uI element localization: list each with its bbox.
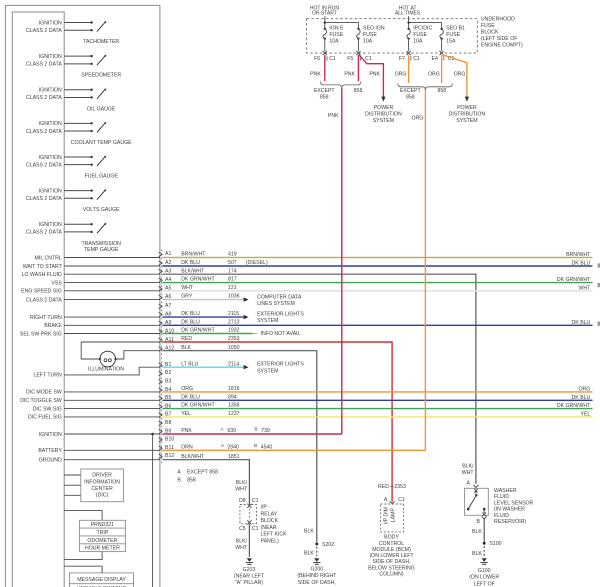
svg-text:BRAKE: BRAKE [44, 323, 62, 329]
svg-text:ODOMETER: ODOMETER [87, 538, 117, 544]
svg-text:DIC MODE SW: DIC MODE SW [26, 390, 62, 396]
svg-text:1932: 1932 [228, 328, 240, 334]
svg-text:G200: G200 [310, 566, 323, 572]
svg-text:RESERVOIR): RESERVOIR) [494, 519, 526, 525]
cluster signal LO WASH FLUID wire [22, 272, 160, 278]
svg-text:BLK: BLK [181, 345, 191, 351]
svg-text:BLK: BLK [304, 528, 314, 534]
connector pin A4 [159, 277, 172, 283]
gauge TACHOMETER [26, 20, 119, 45]
svg-text:YEL: YEL [181, 411, 191, 417]
connector pin A3 [159, 268, 172, 274]
svg-text:MIL CNTRL: MIL CNTRL [35, 255, 62, 261]
label POWER DISTRIBUTION SYSTEM (left) [365, 105, 402, 124]
svg-text:858: 858 [354, 88, 363, 94]
PRND321 box feed wire [64, 511, 102, 521]
label EXCEPT 858 (pink left) [314, 88, 336, 100]
svg-text:LINES SYSTEM: LINES SYSTEM [257, 301, 295, 307]
connector terminal F7/C1 [399, 51, 420, 62]
svg-text:COLUMN): COLUMN) [379, 572, 403, 578]
svg-text:LAMP: LAMP [390, 508, 396, 523]
svg-text:BLK/: BLK/ [236, 539, 248, 545]
svg-text:S100: S100 [489, 541, 501, 547]
svg-text:ENG SPEED SIG: ENG SPEED SIG [21, 289, 62, 295]
connector pin A12 [159, 346, 175, 352]
driver information center box [81, 469, 124, 502]
label UNDERHOOD FUSE BLOCK [481, 17, 523, 49]
svg-text:10A: 10A [363, 39, 373, 45]
I/P relay block dashed box [240, 505, 257, 524]
gauge OIL GAUGE [26, 88, 116, 113]
svg-text:VOLTS GAUGE: VOLTS GAUGE [83, 207, 120, 213]
svg-text:EXTERIOR LIGHTS: EXTERIOR LIGHTS [257, 362, 304, 368]
cluster signal DIC SW SIG wire [33, 406, 160, 412]
fuse output lead F6 [324, 39, 326, 52]
svg-text:858: 858 [406, 94, 415, 100]
svg-text:CLASS 2 DATA: CLASS 2 DATA [26, 95, 62, 101]
fuse IGN E 10A [323, 26, 344, 45]
svg-text:ORG: ORG [428, 71, 440, 77]
svg-text:1050: 1050 [228, 345, 240, 351]
svg-text:EXCEPT: EXCEPT [400, 88, 422, 94]
connector pin A7 [159, 303, 172, 309]
svg-text:B: B [477, 519, 481, 525]
ground G100 [481, 558, 488, 564]
svg-text:ENGINE COMPT): ENGINE COMPT) [481, 43, 523, 49]
svg-text:B: B [254, 443, 257, 448]
svg-text:IGNITION: IGNITION [39, 20, 62, 26]
svg-text:BLK/: BLK/ [462, 464, 474, 470]
svg-text:DK GRN/WHT: DK GRN/WHT [181, 328, 215, 334]
labels PRND321 TRIP ODOMETER HOUR METER [85, 522, 120, 552]
svg-text:TRANSMISSION: TRANSMISSION [81, 241, 121, 247]
svg-text:4540: 4540 [261, 444, 273, 450]
wire A9 DK BLU 2713 [162, 319, 592, 325]
svg-text:2114: 2114 [228, 361, 239, 367]
svg-text:IGNITION: IGNITION [39, 155, 62, 161]
svg-text:G100: G100 [478, 568, 491, 574]
right edge label DK BLU [572, 320, 591, 326]
message display box [69, 573, 133, 587]
svg-text:MESSAGE DISPLAY: MESSAGE DISPLAY [77, 577, 126, 583]
svg-text:FLUID: FLUID [494, 494, 509, 500]
connector pin A1 [159, 251, 172, 257]
fuse IPC/DIC 10A [407, 26, 433, 45]
svg-text:B2: B2 [165, 370, 171, 376]
cluster signal DIC FUEL SIG wire [28, 415, 160, 421]
svg-text:I/P DIM: I/P DIM [383, 507, 389, 524]
feed wire HOT IN RUN [324, 16, 359, 29]
splice S202 [304, 528, 334, 556]
wire B1 LT BLU 2114 [162, 361, 243, 367]
svg-text:(ON LOWER: (ON LOWER [469, 575, 499, 581]
gauge SPEEDOMETER [26, 54, 121, 79]
connector pin B12 [159, 453, 175, 459]
connector pin B7 [159, 412, 172, 418]
wire A3 BLK/WHT 174 [162, 268, 476, 484]
svg-text:RIGHT TURN: RIGHT TURN [30, 315, 62, 321]
cluster signal SEL SW PRK SIG wire [20, 331, 160, 337]
label HOT AT ALL TIMES [395, 5, 421, 16]
svg-text:ALL TIMES: ALL TIMES [395, 11, 421, 17]
washer fluid level sensor switch [467, 489, 486, 516]
arrow to EXTERIOR LIGHTS SYSTEM (B1) [244, 362, 305, 375]
connector pin B8 [159, 420, 172, 426]
fuse SEO IGN 10A [357, 26, 385, 45]
svg-text:RED: RED [378, 484, 389, 490]
label G100 [469, 568, 499, 587]
fuse output lead F5 [357, 39, 359, 52]
washer fluid level sensor box [465, 488, 489, 515]
wire PNK merged vertical to B9 [328, 88, 342, 434]
wire A8 DK BLU 2115 [162, 311, 243, 317]
svg-text:SIDE OF DASH,: SIDE OF DASH, [298, 580, 336, 586]
cluster connector C1 dashed line [161, 250, 163, 464]
connector terminal F6/C1 [314, 51, 336, 62]
svg-text:POWER: POWER [374, 105, 394, 111]
svg-text:BLK: BLK [472, 551, 482, 557]
svg-text:WAIT TO START: WAIT TO START [23, 264, 63, 270]
svg-text:LEFT KICK: LEFT KICK [261, 532, 288, 538]
wire A12 BLK 1050 [162, 345, 316, 542]
svg-text:GRY: GRY [181, 294, 193, 300]
label BLK/WHT (above relay block) [235, 480, 248, 493]
connector pin B5 [159, 395, 172, 401]
cluster signal CLASS 2 DATA wire [26, 297, 160, 303]
svg-text:BLK: BLK [472, 529, 482, 535]
label HOT IN RUN OR START [310, 5, 339, 16]
svg-text:ORG: ORG [181, 386, 193, 392]
svg-text:SYSTEM: SYSTEM [257, 368, 278, 374]
svg-text:I/P: I/P [261, 505, 268, 511]
wire B4 ORG 1816 [162, 386, 592, 392]
svg-text:G203: G203 [243, 567, 256, 573]
wire ORG from F7 [395, 55, 409, 83]
svg-text:507: 507 [228, 260, 237, 266]
ground G203 [246, 558, 253, 564]
cluster signal LEFT TURN wire [33, 367, 159, 379]
cluster inner label box [12, 12, 64, 587]
svg-text:F5: F5 [347, 56, 353, 62]
svg-text:639: 639 [227, 428, 236, 434]
svg-text:A1: A1 [165, 251, 171, 257]
svg-text:FUSE: FUSE [481, 23, 495, 29]
svg-text:FUSE: FUSE [446, 32, 460, 38]
connector pin A6 [159, 294, 172, 300]
svg-text:EXCEPT 858: EXCEPT 858 [187, 469, 218, 475]
svg-text:ORN: ORN [181, 444, 193, 450]
svg-text:GROUND: GROUND [39, 458, 62, 464]
wire RED label [378, 484, 406, 490]
connector pin B9 [159, 428, 172, 434]
svg-text:C1: C1 [329, 56, 336, 62]
svg-text:CLASS 2 DATA: CLASS 2 DATA [26, 297, 62, 303]
svg-text:WHT: WHT [578, 285, 591, 291]
svg-text:419: 419 [228, 252, 237, 258]
svg-text:174: 174 [228, 268, 237, 274]
connector pin A9 [159, 320, 172, 326]
wire A10 DK GRN/WHT 1932 [162, 328, 252, 334]
svg-text:DISTRIBUTION: DISTRIBUTION [449, 111, 486, 117]
wire A6 GRY 1036 [162, 294, 243, 300]
svg-text:MODULE (BCM): MODULE (BCM) [372, 547, 411, 553]
page-edge fragment marks [598, 263, 600, 325]
svg-text:(NEAR LEFT: (NEAR LEFT [234, 574, 265, 580]
cluster signal IGNITION wire [39, 432, 160, 438]
connector pin A11 [159, 337, 174, 343]
svg-text:ORG: ORG [411, 115, 423, 121]
connector pin B2 [159, 370, 172, 376]
svg-text:(NEAR: (NEAR [261, 525, 277, 531]
svg-text:S202: S202 [322, 542, 334, 548]
svg-text:SEO B1: SEO B1 [446, 26, 465, 32]
svg-text:DK BLU: DK BLU [572, 261, 591, 267]
svg-text:PNK: PNK [310, 71, 321, 77]
note INFO NOT AVAIL [253, 331, 301, 337]
svg-text:IGNITION: IGNITION [39, 54, 62, 60]
svg-text:F7: F7 [399, 56, 405, 62]
svg-text:BLK/WHT: BLK/WHT [181, 268, 205, 274]
cluster signal BRAKE wire [44, 323, 160, 329]
cluster signal ENG SPEED SIG wire [21, 289, 160, 295]
right edge label DK GRN/WHT [557, 403, 591, 409]
label BLK/WHT (above washer sensor) [462, 464, 475, 477]
svg-text:IGN E: IGN E [329, 26, 344, 32]
fuse output lead F7 [408, 39, 410, 52]
svg-text:1358: 1358 [228, 403, 240, 409]
gauge VOLTS GAUGE [26, 188, 120, 213]
svg-text:DK GRN/WHT: DK GRN/WHT [181, 403, 215, 409]
connector pin B10 [159, 437, 175, 443]
label WASHER FLUID LEVEL SENSOR [494, 488, 534, 525]
cluster signal VSS wire [51, 280, 159, 286]
svg-text:817: 817 [228, 277, 237, 283]
svg-text:C1: C1 [365, 56, 372, 62]
svg-text:CLASS 2 DATA: CLASS 2 DATA [26, 62, 62, 68]
svg-text:FUSE: FUSE [363, 32, 377, 38]
wire A1 BRN/WHT 419 [162, 252, 592, 258]
svg-text:B12: B12 [165, 453, 174, 459]
svg-text:ILLUMINATION: ILLUMINATION [88, 367, 124, 373]
label 858 (orange right) [437, 88, 446, 94]
wire BLK/WHT to G203 [235, 524, 249, 557]
svg-text:VSS: VSS [51, 280, 62, 286]
wire B11 ORN 2840/4540 [162, 443, 425, 451]
svg-text:IPC/DIC: IPC/DIC [413, 26, 432, 32]
svg-text:SPEEDOMETER: SPEEDOMETER [81, 73, 121, 79]
svg-text:BLK/WHT: BLK/WHT [181, 454, 205, 460]
svg-text:LT BLU: LT BLU [181, 361, 198, 367]
brace EXCEPT 858 / 858 (orange) [398, 84, 453, 91]
svg-text:894: 894 [228, 394, 237, 400]
svg-text:A2: A2 [165, 260, 171, 266]
wire B5 DK BLU 894 [162, 394, 592, 400]
fuse output lead E4 [441, 39, 443, 52]
svg-text:ORG: ORG [578, 386, 590, 392]
terminal B at washer sensor [477, 517, 487, 526]
svg-text:CLASS 2 DATA: CLASS 2 DATA [26, 196, 62, 202]
connector pin B11 [159, 445, 174, 451]
labels MESSAGE DISPLAY / VARIABLE DIMMING [77, 577, 127, 587]
svg-text:BLOCK: BLOCK [481, 30, 499, 36]
instrument cluster outer box [5, 5, 160, 587]
connector pin A8 [159, 311, 172, 317]
svg-text:CLASS 2 DATA: CLASS 2 DATA [26, 162, 62, 168]
svg-text:1036: 1036 [228, 294, 240, 300]
svg-text:IGNITION: IGNITION [39, 121, 62, 127]
svg-text:LEVEL SENSOR: LEVEL SENSOR [494, 500, 534, 506]
wire PNK from F5 [344, 55, 358, 81]
svg-text:DK GRN/WHT: DK GRN/WHT [557, 277, 591, 283]
right edge label YEL [580, 411, 590, 417]
wire A11 RED 2353 [162, 336, 392, 501]
svg-text:CLASS 2 DATA: CLASS 2 DATA [26, 230, 62, 236]
connector pin A2 [159, 260, 172, 266]
arrow to EXTERIOR LIGHTS SYSTEM (A8) [244, 311, 305, 324]
svg-text:BRN/WHT: BRN/WHT [566, 252, 591, 258]
cluster signal RIGHT TURN wire [30, 315, 160, 321]
cluster signal BATTERY wire [38, 448, 160, 454]
svg-text:PANEL): PANEL) [261, 539, 280, 545]
svg-text:B3: B3 [165, 379, 171, 385]
svg-text:CLASS 2 DATA: CLASS 2 DATA [26, 129, 62, 135]
gauge FUEL GAUGE [26, 155, 118, 180]
odometer box bottom wire [64, 552, 102, 560]
svg-text:739: 739 [261, 428, 270, 434]
right edge label WHT [578, 285, 591, 291]
wire ORG branch to power distribution [442, 55, 469, 102]
svg-text:DIC TOGGLE SW: DIC TOGGLE SW [20, 398, 62, 404]
svg-text:RED: RED [181, 336, 192, 342]
svg-text:IGNITION: IGNITION [39, 88, 62, 94]
svg-text:B8: B8 [165, 420, 171, 426]
cluster illumination wire to pin A11 [81, 342, 160, 359]
svg-text:SEL SW PRK SIG: SEL SW PRK SIG [20, 331, 62, 337]
svg-text:"A" PILLAR): "A" PILLAR) [235, 580, 263, 586]
cluster signal DIC MODE SW wire [26, 390, 160, 396]
svg-text:BLK/: BLK/ [236, 480, 248, 486]
svg-text:(ON LOWER LEFT: (ON LOWER LEFT [369, 553, 414, 559]
cluster signal WAIT TO START wire [23, 264, 160, 270]
svg-text:SIDE OF DASH,: SIDE OF DASH, [372, 559, 410, 565]
svg-text:BODY: BODY [384, 535, 399, 541]
arrow to COMPUTER DATA LINES SYSTEM [244, 294, 302, 307]
connector terminal F5/C1 [347, 51, 372, 62]
svg-text:10A: 10A [329, 39, 339, 45]
svg-text:WHT: WHT [462, 470, 475, 476]
svg-text:DK BLU: DK BLU [572, 395, 591, 401]
svg-text:DISTRIBUTION: DISTRIBUTION [365, 111, 402, 117]
label DRIVER INFORMATION CENTER (DIC) [84, 473, 120, 499]
connector terminal A/C1 at BCM [384, 497, 405, 504]
svg-text:BLOCK: BLOCK [261, 518, 279, 524]
connector terminal D8/C1 at relay block [239, 498, 259, 508]
svg-text:PNK: PNK [181, 428, 192, 434]
cluster signal MIL CNTRL wire [35, 255, 160, 261]
svg-text:DRIVER: DRIVER [92, 473, 112, 479]
svg-text:COMPUTER DATA: COMPUTER DATA [257, 294, 302, 300]
wire A4 DK GRN/WHT 817 [162, 277, 592, 283]
wire B12 BLK/WHT 1851 [162, 454, 249, 505]
svg-text:E4: E4 [432, 56, 438, 62]
svg-text:(BEHIND RIGHT: (BEHIND RIGHT [297, 573, 337, 579]
svg-text:LO WASH FLUID: LO WASH FLUID [22, 272, 62, 278]
right edge label DK BLU [572, 395, 591, 401]
svg-text:BRN/WHT: BRN/WHT [181, 252, 206, 258]
svg-text:CENTER: CENTER [91, 486, 113, 492]
svg-text:DK GRN/WHT: DK GRN/WHT [181, 277, 215, 283]
wire ORG merged vertical to B11 [411, 90, 425, 450]
svg-text:2353: 2353 [394, 484, 406, 490]
wire A2 DK BLU 507 [162, 260, 592, 266]
BCM dashed box [381, 504, 404, 532]
svg-text:A: A [467, 480, 471, 486]
svg-text:C1: C1 [398, 497, 405, 503]
svg-text:POWER: POWER [457, 105, 477, 111]
svg-text:DK GRN/WHT: DK GRN/WHT [557, 403, 591, 409]
label POWER DISTRIBUTION SYSTEM (right) [449, 105, 486, 124]
connector pin B6 [159, 403, 172, 409]
label BODY CONTROL MODULE [368, 535, 415, 578]
cluster signal DIC TOGGLE SW wire [20, 398, 160, 404]
svg-text:C5: C5 [239, 526, 246, 532]
cluster internal ignition feed vertical wire [152, 434, 154, 587]
svg-text:SYSTEM: SYSTEM [373, 118, 394, 124]
label G200 [297, 566, 337, 585]
svg-text:858: 858 [437, 88, 446, 94]
svg-text:B: B [255, 427, 258, 432]
wire A5 WHT 121 [162, 285, 592, 291]
svg-text:B: B [177, 478, 181, 484]
legend A EXCEPT 858 / B 858 (cluster) [177, 469, 218, 483]
svg-text:121: 121 [228, 285, 237, 291]
svg-text:1816: 1816 [228, 386, 240, 392]
label EXCEPT 858 (orange left) [400, 88, 422, 100]
svg-text:CONTROL: CONTROL [379, 541, 404, 547]
connector pin A5 [159, 286, 172, 292]
svg-text:BATTERY: BATTERY [38, 448, 62, 454]
svg-text:F6: F6 [314, 56, 320, 62]
connector pin B3 [159, 379, 172, 385]
svg-text:HOUR METER: HOUR METER [85, 546, 120, 552]
svg-text:OR START: OR START [312, 11, 337, 17]
fuse SEO B1 15A [440, 26, 465, 45]
svg-text:IGNITION: IGNITION [39, 188, 62, 194]
svg-text:LEFT TURN: LEFT TURN [33, 373, 62, 379]
ground G200 [313, 558, 320, 564]
cluster illumination return wire to pin A12 [116, 351, 160, 359]
connector terminal E4/C1 [432, 51, 455, 62]
svg-text:WHT: WHT [235, 487, 248, 493]
svg-text:SYSTEM: SYSTEM [257, 318, 278, 324]
odometer display box [79, 520, 125, 551]
svg-text:EXCEPT: EXCEPT [314, 88, 336, 94]
svg-text:(IN WASHER: (IN WASHER [494, 507, 525, 513]
svg-text:WHT: WHT [235, 545, 248, 551]
wire B6 DK GRN/WHT 1358 [162, 403, 592, 409]
svg-text:BELOW STEERING: BELOW STEERING [368, 565, 415, 571]
svg-text:IGNITION: IGNITION [39, 432, 62, 438]
gauge TRANSMISSION TEMP GAUGE [26, 222, 121, 253]
svg-text:DK BLU: DK BLU [181, 311, 200, 317]
svg-text:2840: 2840 [227, 444, 239, 450]
svg-text:TRIP: TRIP [96, 530, 108, 536]
gauge COOLANT TEMP GAUGE [26, 121, 132, 146]
label I/P RELAY BLOCK [261, 505, 288, 545]
svg-text:C1: C1 [252, 498, 259, 504]
svg-text:FUEL GAUGE: FUEL GAUGE [85, 174, 119, 180]
svg-text:OIL GAUGE: OIL GAUGE [87, 106, 116, 112]
